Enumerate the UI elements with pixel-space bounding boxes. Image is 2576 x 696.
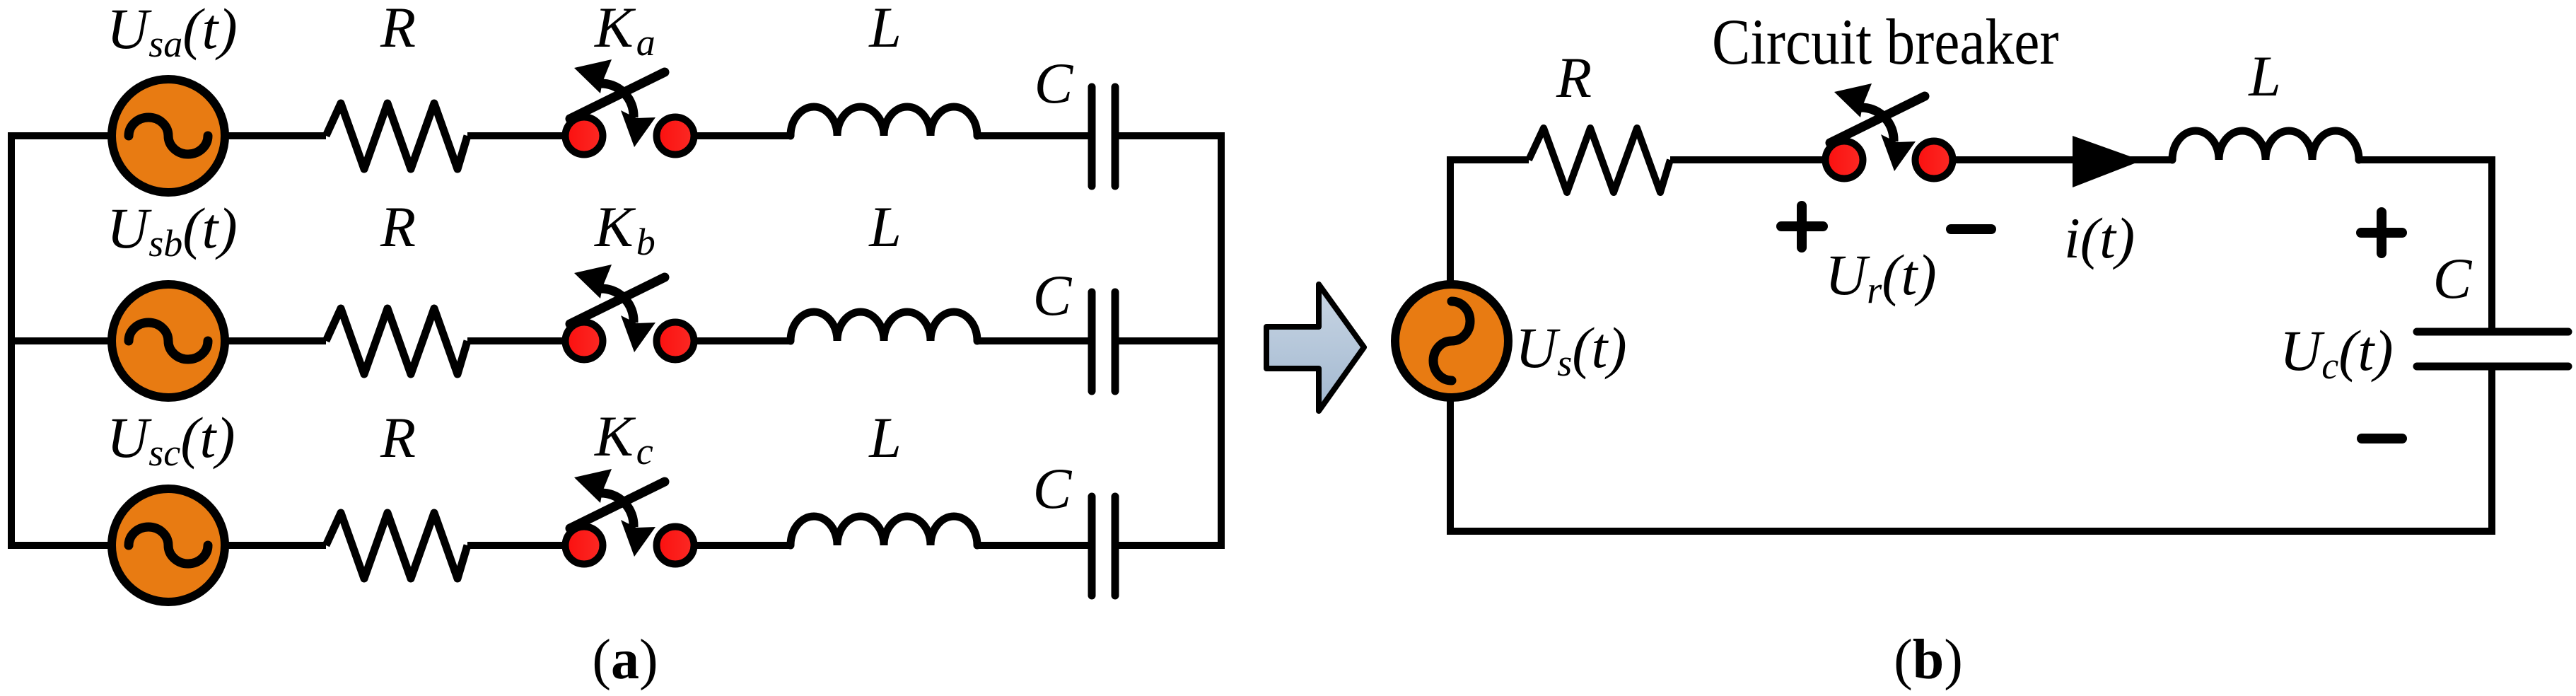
right contact <box>657 527 694 564</box>
left contact <box>566 323 603 360</box>
sine symbol <box>129 527 208 564</box>
left contact <box>1826 141 1863 179</box>
sine symbol (rotated) <box>1433 301 1470 381</box>
svg-text:Ka: Ka <box>594 0 655 64</box>
svg-text:L: L <box>868 405 902 470</box>
svg-text:Usc(t): Usc(t) <box>107 405 235 474</box>
opening motion arc arrow <box>600 83 634 117</box>
svg-text:(a): (a) <box>592 629 658 691</box>
svg-text:Kb: Kb <box>594 195 655 263</box>
plus sign at capacitor top <box>2361 212 2402 253</box>
source circle <box>1395 284 1508 398</box>
capacitor C phase c <box>1092 497 1115 596</box>
svg-text:(b): (b) <box>1894 629 1963 691</box>
resistor R phase a <box>326 103 467 169</box>
opening motion arc arrow <box>1860 108 1894 141</box>
svg-text:Ur(t): Ur(t) <box>1825 243 1937 311</box>
circuit breaker switch (b) <box>1826 83 1953 179</box>
opening motion arc arrow <box>600 493 634 527</box>
big transform arrow <box>1266 284 1364 411</box>
svg-text:C: C <box>1033 456 1073 521</box>
wire left bus (a) <box>8 132 15 549</box>
svg-text:L: L <box>2248 44 2281 108</box>
source circle <box>112 489 225 602</box>
opening motion arc arrow <box>600 289 634 323</box>
svg-text:Circuit breaker: Circuit breaker <box>1712 6 2059 78</box>
sine symbol <box>129 323 208 359</box>
svg-text:L: L <box>868 0 902 59</box>
svg-text:i(t): i(t) <box>2064 206 2135 270</box>
wire phase b row <box>8 337 1225 344</box>
svg-text:C: C <box>1033 263 1073 327</box>
wire right bus (a) <box>1218 132 1225 549</box>
svg-text:R: R <box>380 195 416 259</box>
resistor R (b) <box>1529 128 1670 192</box>
svg-text:Usa(t): Usa(t) <box>107 0 238 65</box>
wire phase c row <box>8 542 1225 549</box>
AC source U_sa <box>112 79 225 192</box>
svg-text:C: C <box>2433 246 2473 311</box>
svg-text:Us(t): Us(t) <box>1515 315 1627 384</box>
inductor L phase a <box>791 107 977 136</box>
minus sign at breaker right <box>1951 224 1991 234</box>
svg-text:Uc(t): Uc(t) <box>2280 318 2394 387</box>
svg-text:R: R <box>380 0 416 59</box>
right contact <box>657 117 694 155</box>
wire (b) right vertical upper <box>2488 156 2495 332</box>
left contact <box>566 527 603 564</box>
wire (b) left vertical <box>1447 156 1454 535</box>
capacitor C phase b <box>1092 292 1115 391</box>
inductor L phase c <box>791 516 977 545</box>
switch K_a <box>566 59 694 155</box>
svg-text:Kc: Kc <box>594 404 653 472</box>
source circle <box>112 284 225 398</box>
AC source U_sb <box>112 284 225 398</box>
left contact <box>566 117 603 155</box>
wire (b) bottom <box>1447 528 2495 535</box>
svg-text:L: L <box>868 195 902 259</box>
switch K_b <box>566 265 694 360</box>
source circle <box>112 79 225 192</box>
plus sign at breaker left <box>1781 206 1823 248</box>
wire (b) right vertical lower <box>2488 366 2495 535</box>
wire (b) top <box>1447 156 2495 163</box>
switch blade <box>1830 96 1925 143</box>
sine symbol <box>129 117 208 154</box>
wire phase a row <box>8 132 1225 139</box>
svg-text:R: R <box>1556 45 1592 110</box>
AC source U_sc <box>112 489 225 602</box>
capacitor C phase a <box>1092 87 1115 186</box>
inductor L (b) <box>2172 131 2359 160</box>
current direction arrow i(t) <box>2073 136 2142 187</box>
svg-text:R: R <box>380 405 416 470</box>
svg-text:Usb(t): Usb(t) <box>107 196 238 265</box>
right contact <box>1916 141 1953 179</box>
resistor R phase c <box>326 513 467 579</box>
AC source U_s <box>1395 284 1508 398</box>
switch K_c <box>566 469 694 564</box>
minus sign at capacitor bottom <box>2362 434 2402 443</box>
capacitor C (b) <box>2417 332 2568 366</box>
inductor L phase b <box>791 312 977 341</box>
right contact <box>657 323 694 360</box>
switch blade <box>570 72 665 119</box>
switch blade <box>570 482 665 528</box>
svg-text:C: C <box>1035 51 1074 115</box>
resistor R phase b <box>326 308 467 374</box>
switch blade <box>570 277 665 324</box>
